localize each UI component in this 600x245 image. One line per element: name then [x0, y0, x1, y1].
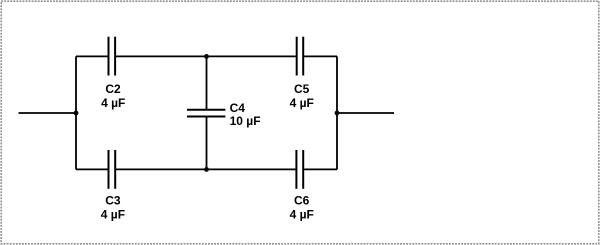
wire right vertical branch	[336, 56, 338, 169]
wire bottom rail right segment	[303, 168, 337, 170]
svg-text:C5: C5	[294, 82, 310, 96]
svg-text:4 µF: 4 µF	[290, 96, 314, 110]
wire top rail right segment	[303, 55, 337, 57]
svg-text:C2: C2	[105, 82, 121, 96]
wire output lead	[337, 112, 394, 114]
wire top rail middle segment	[115, 55, 297, 57]
node input junction	[74, 111, 79, 116]
capacitor C5	[297, 37, 304, 76]
svg-text:4 µF: 4 µF	[290, 208, 314, 222]
capacitor C2	[109, 37, 116, 76]
wire left vertical branch	[75, 56, 77, 169]
node output junction	[335, 111, 340, 116]
svg-text:10 µF: 10 µF	[230, 114, 261, 128]
svg-text:C3: C3	[105, 194, 121, 208]
node bottom rail junction	[204, 167, 209, 172]
wire bottom rail left segment	[76, 168, 109, 170]
svg-text:4 µF: 4 µF	[101, 96, 125, 110]
wire top rail left segment	[76, 55, 109, 57]
wire input lead	[19, 112, 77, 114]
wire bottom rail middle segment	[115, 168, 296, 170]
svg-text:4 µF: 4 µF	[101, 208, 125, 222]
svg-text:C4: C4	[230, 101, 246, 115]
capacitor C4	[187, 110, 225, 117]
node top rail junction	[204, 54, 209, 59]
wire middle vertical lower segment	[206, 117, 208, 170]
capacitor C6	[296, 150, 303, 189]
svg-text:C6: C6	[294, 194, 310, 208]
wire middle vertical upper segment	[206, 56, 208, 109]
capacitor C3	[109, 150, 116, 189]
